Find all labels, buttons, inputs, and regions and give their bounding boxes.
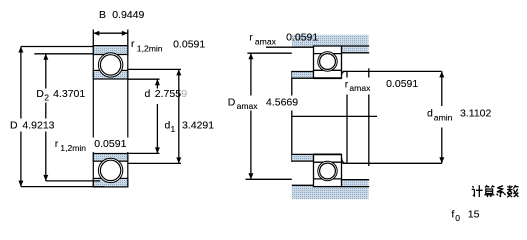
- bottom section: ball: [320, 163, 336, 179]
- svg-text:amax: amax: [237, 101, 259, 111]
- dimension d: leader lines: [128, 79, 160, 153]
- left view: bottom groove circle: [98, 158, 122, 182]
- housing top block: [292, 35, 369, 53]
- label D_amax 4.5669: [226, 96, 300, 112]
- dimension B: left arrow: [93, 31, 99, 36]
- housing bottom block: [292, 180, 369, 200]
- svg-text:amax: amax: [349, 83, 371, 93]
- svg-text:amax: amax: [255, 37, 277, 47]
- dimension D: vertical line: [20, 47, 22, 187]
- dimension D: top arrow: [18, 47, 23, 53]
- dimension d_amin: top leader: [343, 70, 442, 72]
- char xi: [497, 186, 506, 197]
- bearing box top section: [314, 46, 342, 78]
- housing top: shoulder line: [342, 52, 370, 54]
- svg-text:r: r: [249, 32, 253, 44]
- bearing box bottom section: [314, 154, 342, 186]
- svg-text:9: 9: [181, 88, 187, 100]
- svg-text:r: r: [131, 38, 135, 50]
- dimension d: vertical line (broken behind text): [156, 79, 158, 153]
- svg-text:2.755: 2.755: [155, 88, 181, 100]
- shaft bottom seat line: [292, 153, 314, 155]
- top section: inner band line: [314, 69, 342, 71]
- label D 4.9213: [8, 119, 56, 132]
- svg-text:4.9213: 4.9213: [22, 119, 54, 131]
- svg-text:1: 1: [171, 124, 176, 134]
- svg-text:D: D: [228, 97, 236, 109]
- left view: top ball: [100, 55, 120, 75]
- dimension D_amax: top arrow: [248, 53, 253, 59]
- svg-text:D: D: [36, 88, 44, 100]
- svg-text:0.0591: 0.0591: [386, 78, 418, 90]
- left view: bearing side rails (full rectangle of cross-section): [93, 46, 128, 187]
- svg-text:2: 2: [44, 93, 49, 103]
- dimension d1: bottom arrow: [176, 157, 181, 163]
- shaft end face: [346, 71, 348, 163]
- dimension B: right arrow: [122, 31, 128, 36]
- svg-text:1,2min: 1,2min: [137, 43, 163, 53]
- dimension D_amax: bottom arrow: [248, 173, 253, 179]
- left view: bottom ball: [100, 160, 120, 180]
- label: chinese heading 计算系数 (hand drawn): [472, 185, 519, 197]
- label r 1,2min 0.0591 (top): [131, 38, 205, 53]
- svg-text:4.5669: 4.5669: [266, 97, 298, 109]
- svg-text:4.3701: 4.3701: [53, 88, 85, 100]
- dimension d1: top arrow: [176, 69, 181, 75]
- left view: inner ring bottom band: [93, 154, 128, 162]
- label d 2.7559 (grey 9 where d1 line crosses): [145, 88, 188, 100]
- dimension d: top arrow: [155, 79, 160, 85]
- dimension d: bottom arrow: [155, 147, 160, 153]
- top section: seat edge thick: [314, 77, 342, 79]
- dimension d_amin: bottom leader: [343, 162, 442, 164]
- housing bottom: shoulder line: [342, 179, 370, 181]
- char shu: [507, 185, 519, 197]
- label f0 15: [451, 208, 479, 223]
- bottom section: seat edge thick: [314, 153, 342, 155]
- svg-text:1,2min: 1,2min: [60, 143, 86, 153]
- left view: outer ring top band: [93, 46, 128, 55]
- shaft bottom shoulder: [292, 154, 314, 161]
- label r_amax 0.0591 (middle): [343, 78, 420, 95]
- svg-text:0.9449: 0.9449: [112, 9, 144, 21]
- bottom section: groove circle: [318, 161, 337, 180]
- svg-text:r: r: [345, 78, 349, 90]
- dimension D: bottom arrow: [18, 181, 23, 187]
- housing bottom: bore line: [292, 184, 314, 186]
- svg-text:d: d: [427, 108, 433, 120]
- d_a extension line: [368, 68, 370, 166]
- label r_amax 0.0591 (top): [249, 31, 318, 46]
- label r 1,2min 0.0591 (bottom): [52, 138, 129, 154]
- label d_amin 3.1102: [425, 106, 494, 128]
- dimension d1: vertical line: [178, 69, 180, 163]
- svg-text:D: D: [10, 119, 18, 131]
- dimension D_amax: leaders: [246, 53, 292, 179]
- char ji: [472, 185, 483, 197]
- dimension B: extension lines: [93, 30, 128, 46]
- bottom section: outer band line: [314, 178, 342, 180]
- svg-text:3.4291: 3.4291: [182, 120, 214, 132]
- dimension D2: leader lines: [34, 54, 100, 181]
- bottom section: inner band line: [314, 161, 342, 163]
- dimension B: dimension line: [93, 32, 128, 34]
- dimension d_amin: top arrow: [439, 71, 444, 77]
- top section: ball: [320, 54, 336, 70]
- left view: inner ring top band: [93, 70, 128, 79]
- svg-text:d: d: [145, 88, 151, 100]
- shaft right step bottom: fillet: [342, 158, 346, 163]
- svg-text:3.1102: 3.1102: [460, 108, 491, 120]
- svg-text:r: r: [55, 138, 59, 150]
- shaft right step top: fillet: [342, 71, 346, 74]
- svg-text:amin: amin: [434, 112, 453, 122]
- dimension d1: leader lines: [128, 69, 181, 163]
- label B 0.9449: [99, 9, 144, 21]
- shaft left cut face: [291, 71, 293, 162]
- left view: outer ring bottom band: [93, 178, 128, 187]
- shaft top shoulder: [292, 72, 314, 79]
- dimension d_amin: vertical line: [441, 71, 443, 163]
- top section: outer band line: [314, 53, 342, 55]
- shaft top seat line: [292, 77, 314, 79]
- dimension D_amax: vertical line: [250, 53, 252, 179]
- housing top: bore line (r_amax leader): [266, 46, 314, 48]
- dimension d_amin: bottom arrow: [439, 157, 444, 163]
- top section: groove circle: [318, 52, 337, 71]
- svg-text:15: 15: [468, 208, 480, 220]
- label D2 4.3701: [34, 88, 87, 103]
- svg-text:0.0591: 0.0591: [173, 39, 205, 51]
- svg-text:f: f: [451, 208, 454, 220]
- centerline: [292, 115, 378, 117]
- char suan: [484, 185, 494, 197]
- svg-text:0: 0: [455, 213, 460, 223]
- svg-text:0.0591: 0.0591: [94, 138, 126, 150]
- dimension D2: top arrow: [43, 54, 48, 60]
- svg-text:0.0591: 0.0591: [286, 31, 318, 43]
- housing top: right bore edge line: [342, 45, 370, 47]
- svg-text:B: B: [99, 9, 106, 21]
- left view: top groove circle: [98, 53, 122, 77]
- label d1 3.4291: [165, 120, 215, 135]
- dimension D: leader lines: [21, 47, 104, 187]
- dimension D2: vertical line: [45, 54, 47, 181]
- housing bottom: right bore edge line: [342, 186, 370, 188]
- dimension D2: bottom arrow: [43, 175, 48, 181]
